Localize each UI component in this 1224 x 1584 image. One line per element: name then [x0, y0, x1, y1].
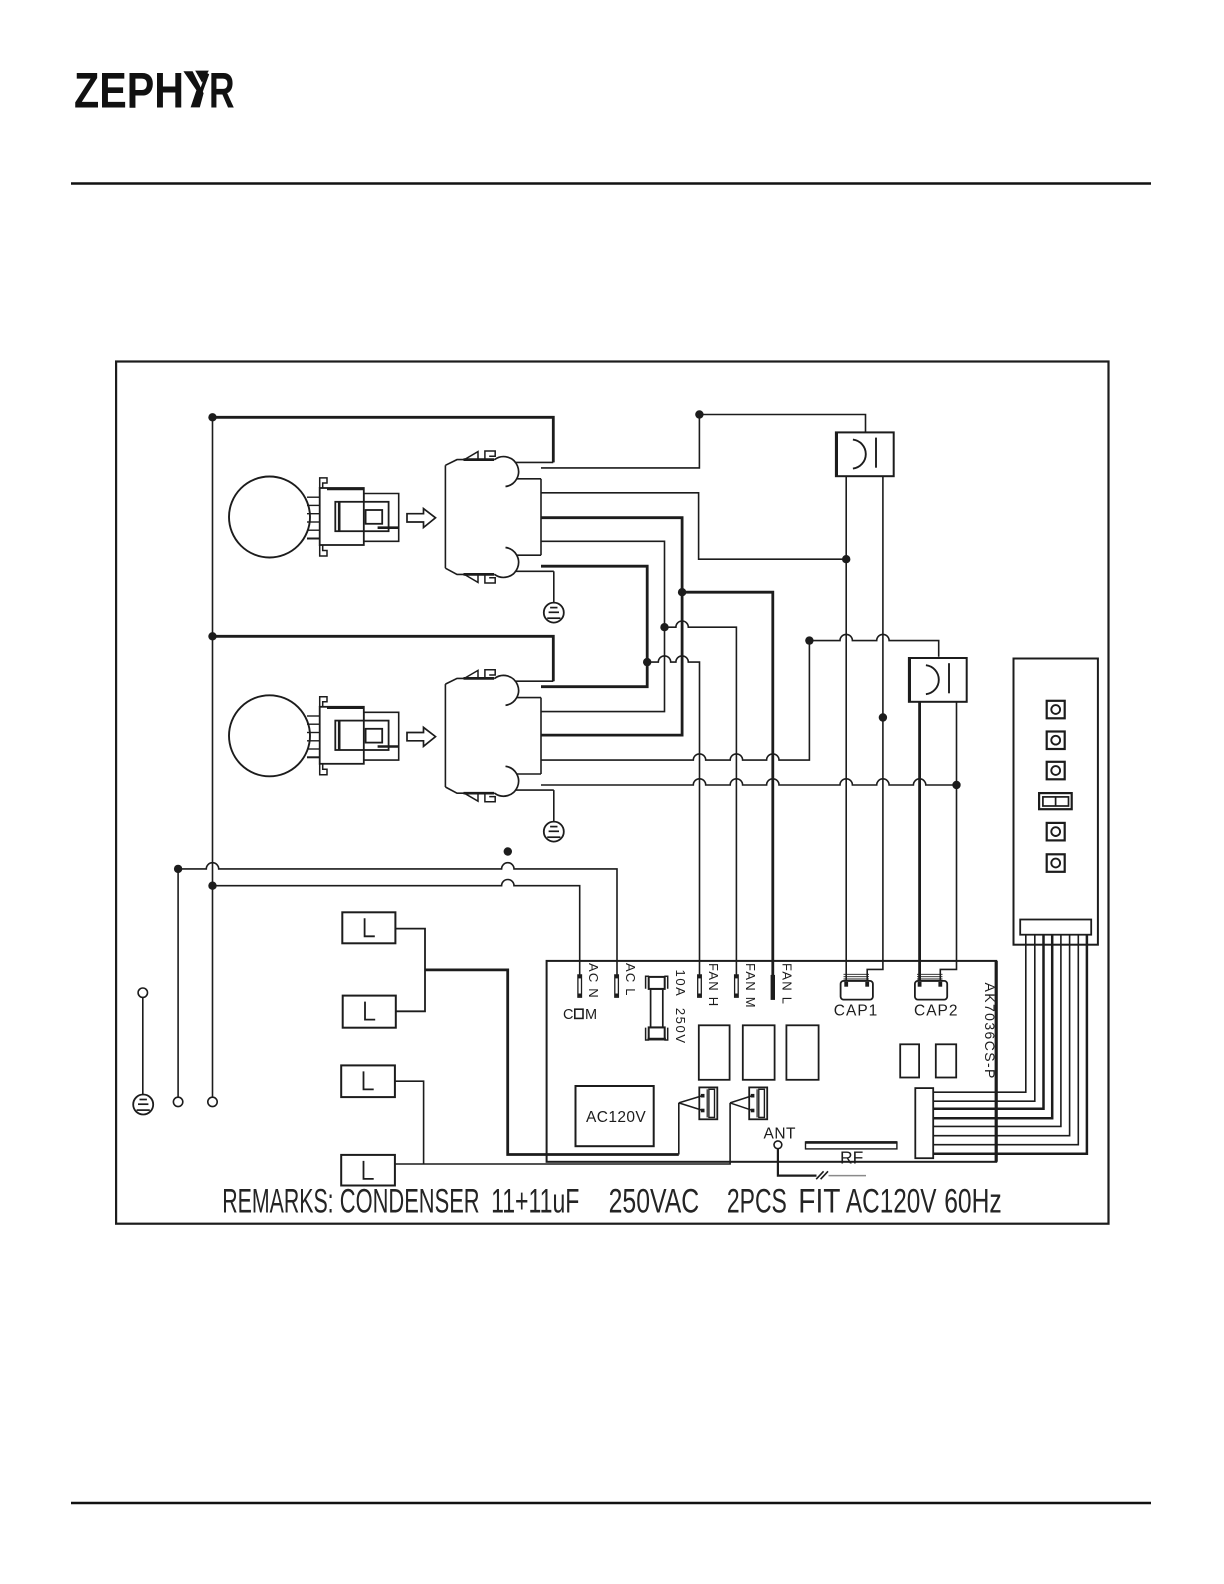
- wire FAN L branch: [682, 592, 773, 975]
- node AC L rail: [174, 865, 182, 873]
- fuse F1 10A 250V: [646, 976, 668, 1040]
- svg-text:AC120V: AC120V: [586, 1109, 646, 1126]
- node upper-left junction: [208, 413, 216, 421]
- wire panel ribbon 2: [933, 935, 1035, 1101]
- capacitor CAP1 symbol: [836, 432, 894, 476]
- wire M2 to CAP2 right: [541, 779, 957, 785]
- svg-text:250VAC: 250VAC: [609, 1183, 700, 1221]
- wire left vertical bus: [212, 417, 214, 1097]
- svg-text:2PCS: 2PCS: [727, 1183, 787, 1221]
- wire CAP1 right leg: [867, 476, 883, 981]
- control panel box: [1014, 659, 1098, 945]
- connector CAP2: [915, 974, 947, 999]
- node FAN L tap: [678, 588, 686, 596]
- node CAP2 top tap: [805, 636, 813, 644]
- wire CN1 riser: [678, 1103, 680, 1155]
- top rule: [71, 182, 1151, 185]
- label COM: [563, 1007, 597, 1023]
- wire M1-M2 pair A: [541, 518, 682, 735]
- wire J2 ground lead: [553, 790, 555, 822]
- wire M1-M2 pair C: [541, 566, 647, 687]
- wire panel ribbon 5: [933, 935, 1061, 1127]
- lamp terminal L2: [343, 996, 396, 1028]
- node CAP2 right tap: [952, 781, 960, 789]
- break symbol: [816, 1171, 828, 1179]
- connector CN2 lamp plug: [730, 1087, 767, 1119]
- wire CAP2 right leg: [940, 702, 956, 982]
- PCB board AK7036CS-P: [547, 961, 997, 1162]
- lamp terminal L1: [342, 912, 395, 943]
- pin AC N: [578, 975, 582, 997]
- wire lamp trunk to CN1: [425, 970, 679, 1155]
- lamp terminal L3: [341, 1065, 395, 1097]
- ground J2: [544, 822, 564, 842]
- wire FAN H branch: [647, 656, 699, 975]
- node CAP1 right leg dot: [879, 713, 887, 721]
- button B3: [1047, 762, 1065, 780]
- button B4: [1047, 823, 1065, 841]
- connector CAP1: [841, 974, 873, 999]
- wire L4 trunk to CN2: [395, 1103, 730, 1164]
- svg-text:AK7036CS-P: AK7036CS-P: [982, 983, 998, 1080]
- svg-text:AC120V: AC120V: [846, 1183, 937, 1221]
- bottom rule: [71, 1502, 1151, 1505]
- wire CAP2 top feed: [809, 634, 938, 656]
- wire upper motor loop top: [213, 417, 554, 462]
- svg-text:10A 250V: 10A 250V: [673, 970, 688, 1045]
- slider switch: [1039, 793, 1072, 809]
- svg-text:FAN H: FAN H: [706, 963, 721, 1007]
- node floating: [504, 847, 512, 855]
- pin FAN M: [735, 975, 739, 997]
- wire earth lead: [142, 997, 144, 1094]
- svg-text:REMARKS:: REMARKS:: [222, 1183, 333, 1221]
- node FAN H tap: [643, 658, 651, 666]
- wire AC N feed: [213, 880, 580, 975]
- arrow plug-in lower: [407, 727, 436, 746]
- pin FAN H: [698, 975, 702, 997]
- button B5: [1047, 854, 1065, 872]
- Zephyr logo: [74, 63, 235, 119]
- svg-text:CAP1: CAP1: [834, 1003, 879, 1020]
- wire second left vertical: [177, 869, 179, 1097]
- IC small block B: [936, 1044, 956, 1077]
- node AC N rail: [208, 882, 216, 890]
- svg-text:FIT: FIT: [798, 1183, 840, 1221]
- wire panel ribbon 4: [933, 935, 1052, 1119]
- wire M2 to CAP2 riser: [541, 641, 809, 761]
- connector J1 motor receptacle: [445, 451, 553, 583]
- wire M1 to CAP1 left: [541, 493, 846, 559]
- RF antenna trace: [806, 1142, 897, 1149]
- wire L3 join: [395, 1081, 424, 1164]
- wire M1 black to CAP1 top: [541, 415, 866, 468]
- svg-text:60Hz: 60Hz: [944, 1183, 1002, 1221]
- svg-text:RF: RF: [840, 1148, 863, 1168]
- wire panel ribbon 1: [933, 935, 1026, 1092]
- svg-text:CAP2: CAP2: [914, 1003, 959, 1020]
- terminal circle left bus: [208, 1097, 217, 1106]
- antenna pad ANT: [774, 1141, 782, 1149]
- diagram border: [116, 362, 1108, 1224]
- svg-text:CONDENSER: CONDENSER: [340, 1183, 480, 1221]
- IC small block A: [900, 1044, 919, 1077]
- node lower-left junction: [208, 632, 216, 640]
- motor M2: [229, 695, 399, 776]
- svg-text:ZEPH: ZEPH: [74, 63, 184, 119]
- wire FAN M branch: [665, 621, 737, 975]
- panel connector bar: [1020, 920, 1091, 935]
- wire lower motor loop top: [213, 636, 554, 681]
- svg-text:M: M: [585, 1007, 597, 1023]
- button B1: [1047, 701, 1065, 719]
- PCB right edge heavy: [995, 961, 998, 1162]
- wire CAP1 left leg: [845, 476, 847, 981]
- wire J1 ground lead: [553, 571, 555, 602]
- lamp terminal L4: [341, 1155, 395, 1186]
- module AC120V box: [576, 1086, 654, 1146]
- node CAP1 left tap: [842, 555, 850, 563]
- wire panel ribbon 3: [933, 935, 1043, 1109]
- ground chassis: [133, 1095, 153, 1115]
- svg-text:R: R: [209, 63, 235, 119]
- terminal circle second: [173, 1097, 182, 1106]
- svg-text:FAN M: FAN M: [743, 963, 758, 1009]
- button B2: [1047, 732, 1065, 750]
- pin FAN L: [771, 975, 775, 1000]
- wire CAP2 left leg: [918, 702, 921, 982]
- wire ANT lead: [778, 1149, 817, 1176]
- svg-text:11+11uF: 11+11uF: [491, 1183, 579, 1221]
- wire panel ribbon 7: [933, 935, 1078, 1145]
- wire AC L feed: [178, 863, 617, 975]
- wire ANT stub after break: [829, 1175, 867, 1177]
- connector CN3 to panel: [915, 1088, 933, 1158]
- node FAN M tap: [660, 623, 668, 631]
- capacitor CAP2 symbol: [909, 658, 967, 702]
- remarks text: [222, 1183, 1002, 1221]
- connector J2 motor receptacle: [445, 670, 553, 802]
- motor M1: [229, 477, 399, 558]
- connector CN1 lamp plug: [679, 1087, 718, 1119]
- svg-text:ANT: ANT: [764, 1126, 797, 1143]
- wire L1-L2 join: [395, 929, 425, 1012]
- pin AC L: [615, 975, 619, 997]
- svg-text:AC L: AC L: [623, 963, 638, 997]
- ground J1: [544, 603, 564, 623]
- node CAP1 top: [695, 410, 703, 418]
- relay K1: [699, 1025, 730, 1080]
- svg-text:FAN L: FAN L: [780, 963, 795, 1005]
- svg-text:AC N: AC N: [586, 963, 601, 999]
- svg-text:C: C: [563, 1007, 573, 1023]
- wire M1-M2 pair B: [541, 541, 665, 711]
- wire panel ribbon 6: [933, 935, 1069, 1136]
- relay K2: [743, 1025, 775, 1080]
- earth terminal circle: [138, 988, 147, 997]
- wire panel ribbon 8: [933, 935, 1087, 1154]
- arrow plug-in upper: [407, 509, 436, 528]
- relay K3: [786, 1025, 818, 1080]
